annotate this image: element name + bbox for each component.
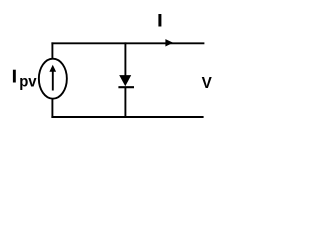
arrowhead current direction I	[165, 39, 173, 46]
svg-text:V: V	[202, 75, 213, 92]
current source arrow	[49, 65, 56, 91]
wire diode branch upper segment	[124, 42, 126, 76]
svg-text:pv: pv	[19, 74, 37, 91]
label I (output current)	[158, 14, 161, 27]
current source Ipv	[39, 59, 67, 99]
wire diode branch lower segment	[124, 87, 126, 118]
label I pv (photocurrent)	[13, 70, 37, 91]
wire left branch lower segment	[51, 99, 53, 118]
wire bottom horizontal	[51, 116, 203, 118]
wire top horizontal	[51, 42, 204, 44]
wire left branch upper segment	[51, 42, 53, 58]
diode D	[118, 75, 134, 87]
